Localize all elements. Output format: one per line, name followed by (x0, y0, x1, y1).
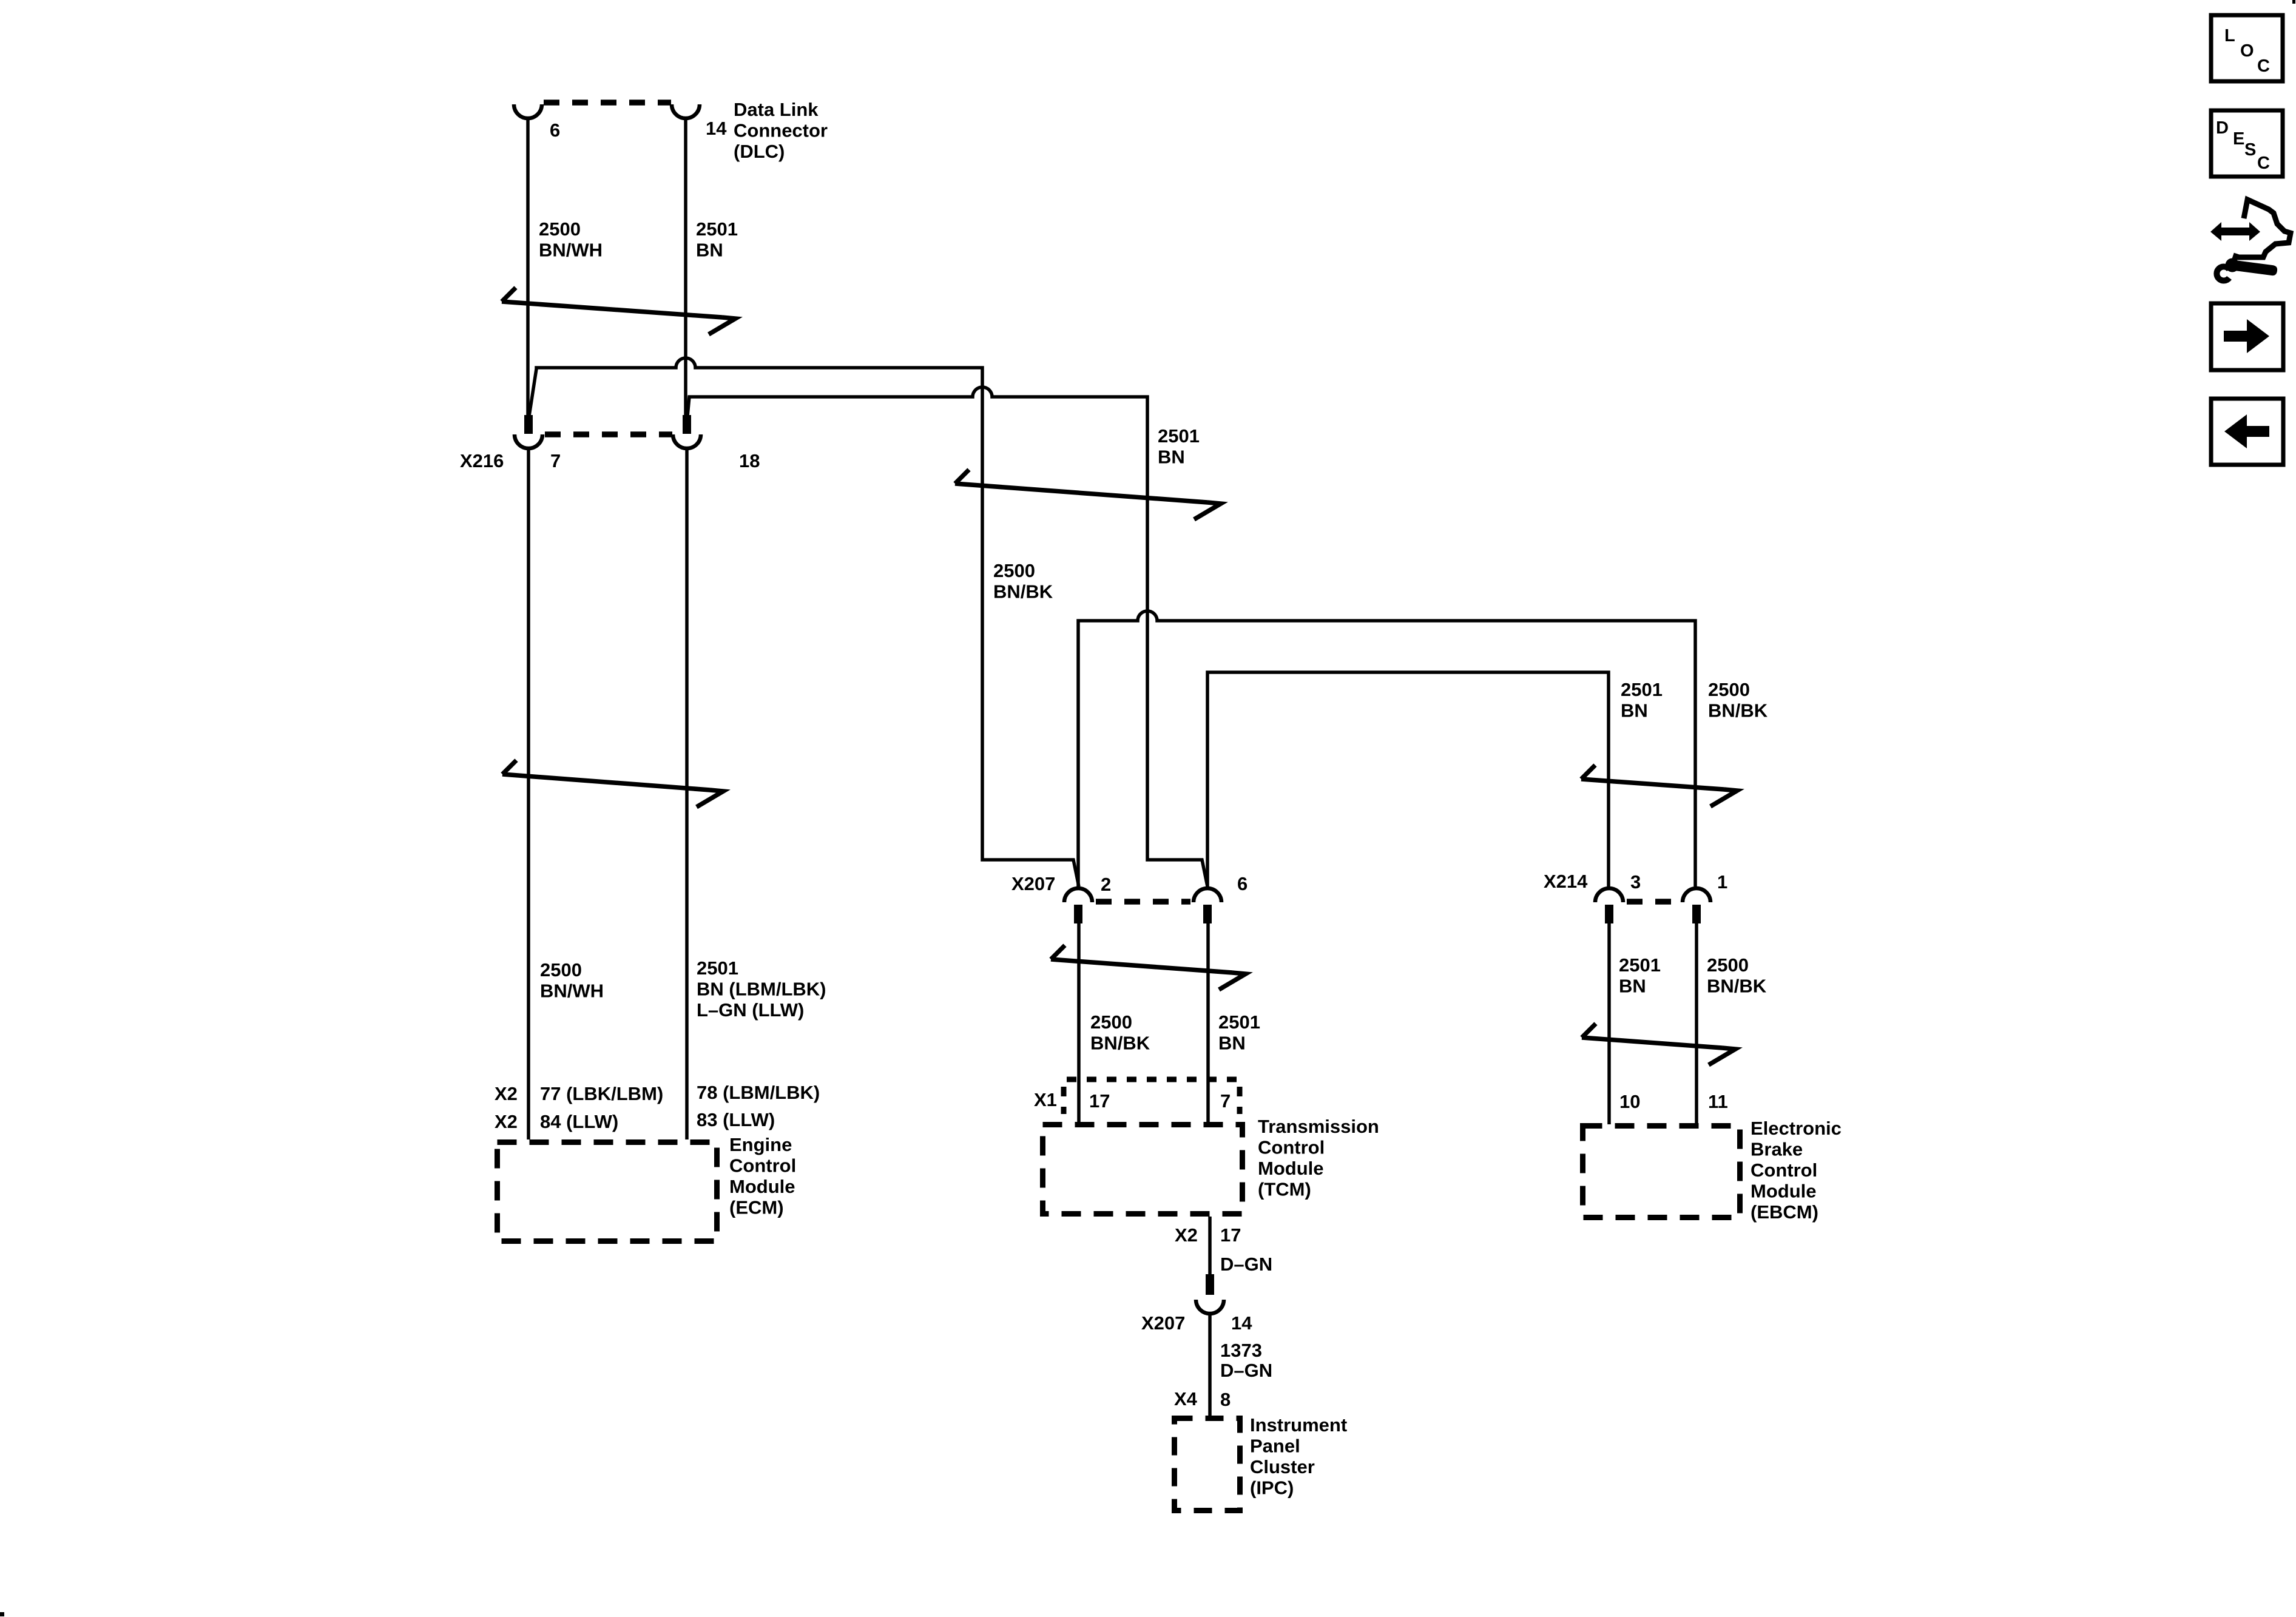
X207 pin 14 male blade (1206, 1274, 1214, 1295)
svg-text:C: C (2257, 56, 2270, 76)
module TCM dashed box (1043, 1125, 1243, 1214)
wire branch 2500 from X216:7 junction to X207:2 (with hop over 2501) (529, 358, 1079, 886)
svg-text:X2: X2 (495, 1083, 518, 1104)
svg-text:X2: X2 (1175, 1224, 1198, 1246)
X207 pin 6 female terminal dome (1194, 888, 1221, 902)
harness crossover slash S1 (502, 288, 735, 334)
wire 2500 BN/WH from DLC:6 down to X216:7 (526, 118, 530, 417)
page corner mark top-right (2292, 0, 2295, 4)
svg-text:6: 6 (550, 120, 560, 141)
X207 pin 2 male blade (1074, 905, 1082, 923)
X216 connector dashed mating line (545, 431, 672, 437)
svg-text:17: 17 (1089, 1090, 1110, 1112)
wire 2501 BN X214:3 down to EBCM:10 (1607, 922, 1611, 1124)
wire 2501 BN from X207:6 over to X214:3 (1207, 672, 1609, 886)
svg-text:3: 3 (1630, 871, 1641, 893)
X214 pin 3 male blade (1605, 905, 1613, 923)
X214 connector dashed mating line (1627, 899, 1680, 905)
X207 pin 6 male blade (1203, 905, 1212, 923)
svg-text:77 (LBK/LBM): 77 (LBK/LBM) (540, 1083, 663, 1104)
svg-text:O: O (2240, 41, 2254, 61)
svg-text:1: 1 (1717, 871, 1727, 893)
svg-text:X216: X216 (460, 450, 504, 471)
svg-text:X207: X207 (1011, 873, 1055, 894)
wire 2500 BN/WH from X216:7 down to ECM (527, 448, 530, 1139)
svg-text:D–GN: D–GN (1220, 1254, 1272, 1275)
svg-text:X207: X207 (1141, 1312, 1185, 1334)
harness crossover slash S2 (502, 760, 723, 807)
sidebar prev-page button box (2211, 399, 2283, 465)
svg-text:D: D (2216, 118, 2229, 138)
page corner mark bottom-left (0, 1612, 4, 1616)
DLC connector dashed mating line (544, 100, 671, 106)
svg-text:X1: X1 (1034, 1089, 1057, 1110)
X216 pin 18 male blade (683, 415, 691, 434)
svg-text:X214: X214 (1544, 871, 1588, 892)
sidebar trace icon: double-headed arrow (2210, 222, 2260, 241)
sidebar LOC button box (2211, 15, 2283, 81)
module ECM dashed box (498, 1143, 717, 1241)
svg-text:1373: 1373 (1220, 1340, 1262, 1361)
svg-text:14: 14 (1231, 1312, 1252, 1334)
TCM X1 strip right dashed stub (1237, 1087, 1243, 1114)
wire branch 2501 from X216:18 junction to X207:6 (with hop over 2500 branch) (687, 387, 1207, 886)
sidebar DESC button box (2211, 110, 2283, 177)
X207 pin 14 female terminal (1196, 1300, 1224, 1314)
X216 pin 7 female terminal (515, 434, 542, 448)
wire 2501 BN X207:6 down to TCM X1-7 (1206, 922, 1210, 1124)
svg-text:17: 17 (1220, 1224, 1241, 1246)
svg-text:8: 8 (1220, 1389, 1231, 1410)
svg-text:S: S (2244, 140, 2256, 160)
svg-text:7: 7 (550, 450, 561, 471)
X207 pin 2 female terminal dome (1064, 888, 1092, 902)
harness crossover slash S5 (1582, 1024, 1735, 1065)
module IPC dashed box (1175, 1419, 1240, 1511)
svg-text:11: 11 (1708, 1091, 1728, 1112)
svg-text:83 (LLW): 83 (LLW) (697, 1109, 775, 1130)
wire 2501 from X216:18 down to ECM (685, 448, 689, 1139)
prev-page left arrow (2224, 414, 2269, 448)
X214 pin 1 male blade (1692, 905, 1701, 923)
wire 2501 BN from DLC:14 down to X216:18 (684, 118, 687, 417)
svg-text:X4: X4 (1174, 1388, 1198, 1409)
X216 pin 7 male blade (524, 415, 533, 434)
harness crossover slash S6 (above X214) (1581, 765, 1737, 806)
svg-text:E: E (2233, 129, 2244, 149)
connector DLC pin 6 female terminal (514, 104, 542, 118)
X214 pin 1 female terminal dome (1683, 888, 1710, 902)
svg-text:X2: X2 (495, 1111, 518, 1132)
svg-text:L: L (2224, 26, 2235, 46)
wire 1373 D-GN down to IPC (1208, 1313, 1212, 1416)
sidebar next-page button box (2211, 303, 2283, 370)
wire D-GN from TCM X2-17 down (1208, 1217, 1212, 1275)
svg-text:7: 7 (1220, 1090, 1231, 1112)
next-page right arrow (2224, 319, 2269, 353)
wire 2500 BN/BK X207:2 down to TCM X1-17 (1077, 922, 1081, 1124)
svg-text:78 (LBM/LBK): 78 (LBM/LBK) (697, 1082, 820, 1103)
X216 pin 18 female terminal (673, 434, 701, 448)
svg-text:2: 2 (1101, 874, 1111, 895)
svg-text:18: 18 (739, 450, 760, 471)
svg-text:10: 10 (1619, 1091, 1640, 1112)
wire 2500 BN/BK X214:1 down to EBCM:11 (1695, 922, 1698, 1124)
TCM X1 connector strip dashed line (1067, 1077, 1239, 1082)
sidebar trace icon: wrench (2226, 258, 2240, 272)
connector DLC pin 14 female terminal (672, 104, 700, 118)
svg-text:C: C (2257, 154, 2270, 173)
svg-text:14: 14 (706, 118, 727, 139)
TCM X1 strip left dashed stub (1061, 1087, 1067, 1114)
svg-text:84 (LLW): 84 (LLW) (540, 1111, 618, 1132)
svg-text:D–GN: D–GN (1220, 1360, 1272, 1381)
module EBCM dashed box (1583, 1126, 1740, 1218)
X207 connector dashed mating line (1096, 899, 1190, 905)
svg-text:6: 6 (1237, 873, 1248, 894)
harness crossover slash S4 (1051, 945, 1246, 990)
X214 pin 3 female terminal dome (1595, 888, 1623, 902)
harness crossover slash S3 (955, 470, 1221, 519)
sidebar trace icon: connector outline (2235, 200, 2291, 257)
wire 2500 BN/BK from X207:2 up over to X214:1 (hop over 2501) (1078, 611, 1695, 886)
